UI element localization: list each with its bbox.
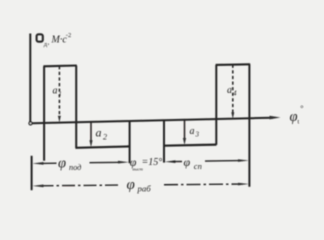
y-axis label omega_d — [37, 34, 43, 41]
a2 depth arrow line — [90, 122, 92, 142]
dimension phi_sp right arrowhead — [238, 159, 249, 162]
svg-text:раб: раб — [137, 184, 152, 194]
svg-text:3: 3 — [195, 131, 200, 139]
dimension phi_sp line right part — [205, 160, 241, 163]
svg-text:φ: φ — [58, 156, 66, 172]
a3 arrowhead down — [183, 138, 186, 145]
dimension phi_pod right arrowhead — [118, 161, 129, 164]
a3 left edge + extension to dimension row — [163, 120, 165, 162]
x-axis arrowhead — [270, 116, 281, 120]
y-axis — [29, 34, 31, 122]
a4 top edge — [216, 63, 251, 66]
svg-text:φ: φ — [127, 177, 135, 193]
box a1 top edge — [43, 64, 76, 67]
svg-text:=15°: =15° — [142, 157, 163, 168]
a2 right edge + extension to dimension row — [129, 121, 131, 163]
dimension phi_rab line right part (dash-dot) — [164, 183, 241, 186]
dimension phi_pod left arrowhead — [32, 162, 43, 165]
svg-text:a: a — [53, 86, 58, 97]
dimension phi_pod line left part — [41, 162, 57, 164]
dimension phi_sp line left part — [173, 161, 183, 163]
svg-text:a: a — [96, 126, 102, 140]
dimension phi_sp left arrowhead — [165, 160, 176, 163]
svg-text:-2: -2 — [66, 32, 71, 39]
a1 centerline down arrowhead — [58, 116, 61, 123]
box a1 right edge / a2 left edge — [75, 66, 77, 148]
x-axis — [32, 118, 273, 124]
svg-text:1: 1 — [59, 91, 62, 98]
dimension phi_rab right arrowhead — [238, 183, 249, 186]
dimension phi_rab left arrowhead — [32, 185, 43, 188]
svg-text:,: , — [48, 39, 50, 47]
a1 dashed centerline — [58, 66, 60, 117]
svg-text:φ: φ — [184, 155, 191, 169]
a4 centerline down arrowhead — [231, 112, 234, 119]
svg-text:под: под — [69, 163, 81, 172]
a3 bottom edge — [163, 145, 216, 146]
svg-text:φ: φ — [290, 109, 298, 125]
svg-text:сп: сп — [194, 161, 202, 171]
a3 depth arrow line — [184, 120, 186, 140]
left extension line below origin — [31, 156, 33, 190]
svg-text:2: 2 — [103, 133, 107, 142]
svg-text:4: 4 — [233, 90, 237, 98]
dimension phi_pod line right part — [90, 161, 122, 163]
origin circle — [29, 122, 32, 125]
a3 right edge / a4 left edge — [215, 65, 217, 145]
svg-text:a: a — [190, 126, 195, 137]
a2 arrowhead down — [89, 140, 92, 147]
a2 bottom edge — [75, 146, 130, 147]
svg-text:a: a — [227, 85, 232, 96]
svg-text:М·с: М·с — [51, 35, 68, 46]
box a1 left edge + extension below axis — [43, 66, 45, 160]
a4 right edge + extension through dimension rows — [248, 64, 250, 187]
dimension phi_rab line left part (dash-dot) — [41, 184, 119, 187]
a4 dashed centerline — [232, 65, 234, 114]
